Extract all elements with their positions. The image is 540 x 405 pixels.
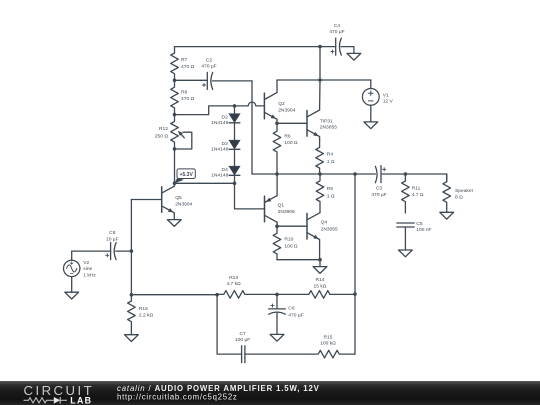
svg-text:2.2 kΩ: 2.2 kΩ <box>139 312 154 318</box>
wire: R10 bottom to Q4 emitter <box>277 259 320 261</box>
resistor R13 <box>217 291 277 299</box>
resistor R15 <box>312 350 355 358</box>
svg-text:D2: D2 <box>222 115 229 121</box>
logo resistor-diode symbol <box>24 397 68 404</box>
wire: bias bottom node down to Q1 base <box>235 183 265 209</box>
wire: R15 right up to R14 node <box>353 294 356 354</box>
wire: R12 to Q5 collector node <box>174 149 176 183</box>
node: R7/R8/C2 junction <box>173 79 177 83</box>
svg-text:C4: C4 <box>334 23 341 29</box>
wire: input node vertical (Q5 base / C8 / R16) <box>130 200 132 295</box>
label R5 value 1 ohm <box>327 186 335 200</box>
label R11 value 4.7 ohm <box>412 186 424 199</box>
wire: C7 to R15 <box>245 353 312 355</box>
node: D4/Q5 collector junction <box>233 182 237 186</box>
svg-text:470 µF: 470 µF <box>329 29 344 35</box>
svg-text:R15: R15 <box>324 335 333 341</box>
node: output rail / R11 junction <box>404 172 408 176</box>
wire: D4 cathode down to bias-spreader bottom node <box>234 175 236 183</box>
svg-text:100 kΩ: 100 kΩ <box>320 341 336 347</box>
diode D3 1N4148 <box>229 140 240 149</box>
svg-text:2N3904: 2N3904 <box>278 107 295 113</box>
svg-text:2N3055: 2N3055 <box>320 125 337 131</box>
svg-text:1N4148: 1N4148 <box>211 120 228 126</box>
resistor R11 <box>402 174 410 213</box>
label Speaker 8 ohm <box>455 188 474 201</box>
node: output rail / feedback junction <box>353 172 357 176</box>
transistor Q4 2N3055 <box>307 213 320 260</box>
svg-text:1 Ω: 1 Ω <box>327 159 335 165</box>
label R4 value 1 ohm <box>327 151 335 165</box>
footer bar <box>0 381 540 405</box>
wire: R13 node down to C7 row <box>217 295 242 354</box>
wire: +12V top rail <box>175 46 336 48</box>
ground: speaker return <box>440 208 454 219</box>
node: R14 / feedback line junction <box>353 292 357 296</box>
node: Q2 emitter / R6 / TIP31 base junction <box>275 122 279 126</box>
R12 wiper arrow <box>178 131 184 138</box>
diode D4 1N4148 <box>229 166 240 175</box>
ground: V1 negative terminal <box>364 122 378 129</box>
svg-text:1 Ω: 1 Ω <box>327 193 335 199</box>
label R16 value 2.2 kohm <box>139 306 154 319</box>
resistor R14 <box>277 291 355 299</box>
wire: R12 wiper short to bottom terminal <box>175 132 192 149</box>
svg-text:C8: C8 <box>109 230 116 236</box>
svg-text:2N3055: 2N3055 <box>321 226 338 232</box>
diode D2 1N4148 <box>229 106 240 123</box>
wire: input row to feedback divider <box>131 294 217 296</box>
wire: junction to C2 <box>175 79 208 81</box>
label R15 value 100 kohm <box>320 335 336 347</box>
voltage source V1 12V <box>362 80 379 122</box>
label R7 value 470 ohm <box>181 57 195 70</box>
label C8 value 10 uF <box>106 230 119 242</box>
label D4 1N4148 <box>211 167 228 178</box>
capacitor C2 <box>207 72 252 89</box>
svg-text:R12: R12 <box>159 126 168 132</box>
svg-text:C7: C7 <box>239 331 246 337</box>
svg-text:catalin / AUDIO POWER AMPLIFIE: catalin / AUDIO POWER AMPLIFIER 1.5W, 12… <box>117 384 320 393</box>
wire: output rail to speaker <box>446 174 448 182</box>
voltage source V2 sine 1kHz <box>63 251 79 292</box>
svg-text:1N4148: 1N4148 <box>211 172 228 178</box>
label D3 1N4148 <box>211 141 228 152</box>
node: D2 anode junction <box>233 104 237 108</box>
label Q2 2N3904 <box>278 101 295 113</box>
label C6 value 470 uF <box>288 305 303 318</box>
node: R16 / feedback row junction <box>130 293 134 297</box>
svg-text:Q5: Q5 <box>175 195 182 201</box>
node: Q5 collector junction dot <box>173 182 177 186</box>
svg-text:8 Ω: 8 Ω <box>455 195 463 201</box>
wire: Q1 collector node to Q4 base <box>277 225 307 227</box>
svg-text:12 V: 12 V <box>383 99 394 105</box>
label V2 sine 1 kHz <box>83 260 96 279</box>
transistor Q3 TIP31 2N3055 <box>307 110 320 141</box>
wire: Q5 collector node across <box>175 182 235 184</box>
label C5 value 100 nF <box>416 221 431 233</box>
svg-text:R14: R14 <box>316 277 325 283</box>
label R12 value 250 ohm <box>155 126 169 140</box>
resistor R10 <box>273 226 281 260</box>
svg-text:R11: R11 <box>412 186 421 192</box>
label C7 value 100 uF <box>235 331 250 343</box>
svg-text:+5.3V: +5.3V <box>180 172 194 178</box>
svg-text:D4: D4 <box>222 167 229 173</box>
resistor R16 <box>128 295 136 328</box>
label Q4 2N3055 <box>321 220 338 233</box>
svg-text:C5: C5 <box>416 221 423 227</box>
svg-text:Q2: Q2 <box>278 101 285 107</box>
wire: output rail <box>252 173 447 175</box>
wire: Q2 emitter node to Q3 base <box>277 122 307 124</box>
label V1 12 V <box>383 92 394 104</box>
label R8 value 470 ohm <box>181 89 195 102</box>
svg-text:R4: R4 <box>327 151 334 157</box>
svg-text:470 Ω: 470 Ω <box>181 64 195 70</box>
wire: +12V collector rail <box>277 79 371 81</box>
resistor R8 <box>171 80 179 114</box>
svg-text:C2: C2 <box>206 57 213 63</box>
node: R13/R14/C6 junction <box>275 293 279 297</box>
voltage flag +5.3V <box>174 169 195 184</box>
svg-text:4.7 kΩ: 4.7 kΩ <box>226 281 241 287</box>
capacitor C3 <box>375 166 381 183</box>
svg-text:R16: R16 <box>139 306 148 312</box>
capacitor C5 <box>397 223 414 250</box>
label C2 polarity + <box>202 83 205 86</box>
transistor Q5 2N3904 <box>162 183 175 219</box>
footer url text <box>117 393 238 402</box>
ground: C6 bottom <box>270 334 284 341</box>
wire: D2 cathode to D3 anode <box>234 123 236 141</box>
label R13 value 4.7 kohm <box>226 275 241 287</box>
resistor R7 <box>171 47 179 81</box>
label C2 value 470 uF <box>201 57 216 69</box>
svg-text:1 kHz: 1 kHz <box>83 273 96 279</box>
label Q1 2N3906 <box>278 203 295 215</box>
svg-text:Speaker: Speaker <box>455 188 474 194</box>
node: R13 left junction <box>215 293 219 297</box>
potentiometer R12 (rheostat) <box>171 115 179 149</box>
logo wordmark LAB <box>70 395 92 405</box>
svg-text:470 µF: 470 µF <box>288 312 303 318</box>
wire: C4 node down to TIP31 collector <box>319 47 321 110</box>
svg-text:R10: R10 <box>284 236 293 242</box>
node: top rail / C4 junction <box>318 45 322 49</box>
label R6 value 100 ohm <box>284 134 298 147</box>
node: output rail / R4 / R5 junction <box>318 172 322 176</box>
CircuitLab logo wordmark CIRCUIT <box>24 383 95 398</box>
ground: Q5 emitter <box>167 220 181 227</box>
svg-text:100 Ω: 100 Ω <box>284 140 298 146</box>
svg-text:TIP31: TIP31 <box>320 118 333 124</box>
ground: R16 bottom <box>125 328 139 342</box>
svg-text:C6: C6 <box>288 305 295 311</box>
label C3 polarity + <box>383 168 386 171</box>
svg-text:R13: R13 <box>229 275 238 281</box>
svg-text:1N4148: 1N4148 <box>211 146 228 152</box>
svg-text:R7: R7 <box>181 57 188 63</box>
label C6 polarity + <box>271 304 274 307</box>
svg-text:15 kΩ: 15 kΩ <box>314 284 327 290</box>
svg-text:2N3904: 2N3904 <box>175 201 192 207</box>
label C3 value 470 uF <box>371 186 386 198</box>
svg-text:R5: R5 <box>327 186 334 192</box>
node: C8 junction <box>130 249 134 253</box>
svg-text:C3: C3 <box>376 186 383 192</box>
resistor R4 <box>316 141 324 174</box>
label R14 value 15 kohm <box>314 277 327 290</box>
svg-text:D3: D3 <box>222 141 229 147</box>
node: Q4 emitter ground junction <box>318 258 322 262</box>
svg-text:Q4: Q4 <box>321 220 328 226</box>
svg-text:sine: sine <box>83 266 92 272</box>
node: R12 bottom junction <box>173 147 177 151</box>
svg-text:LAB: LAB <box>70 395 92 405</box>
resistor R6 <box>273 123 281 174</box>
svg-text:470 Ω: 470 Ω <box>181 96 195 102</box>
svg-text:Q1: Q1 <box>278 203 285 209</box>
node: collector rail / C4 / TIP31 junction <box>318 78 322 82</box>
label R10 value 100 ohm <box>284 236 298 249</box>
ground: C4 negative terminal <box>347 53 361 60</box>
speaker (8 ohm resistor symbol) <box>443 174 451 208</box>
resistor R5 <box>316 174 324 213</box>
svg-text:R8: R8 <box>181 89 188 95</box>
ground: V2 negative terminal <box>65 292 79 299</box>
svg-text:http://circuitlab.com/c5q252z: http://circuitlab.com/c5q252z <box>117 393 238 402</box>
svg-text:R6: R6 <box>284 134 291 140</box>
svg-text:470 µF: 470 µF <box>371 192 386 198</box>
node: R8/R12 junction <box>173 113 177 117</box>
svg-text:2N3906: 2N3906 <box>278 209 295 215</box>
label TIP31 2N3055 <box>320 118 337 130</box>
node: output rail / R6 / Q1 emitter junction <box>275 172 279 176</box>
svg-text:10 µF: 10 µF <box>106 236 119 242</box>
svg-text:V1: V1 <box>383 92 389 98</box>
ground: output stage emitter <box>313 260 327 274</box>
label D2 1N4148 <box>211 115 228 126</box>
svg-text:100 Ω: 100 Ω <box>284 243 298 249</box>
label C8 polarity + <box>106 254 109 257</box>
wire: D3 cathode to D4 anode <box>234 149 236 166</box>
svg-text:100 µF: 100 µF <box>235 337 250 343</box>
footer title: author and circuit name <box>117 384 320 393</box>
svg-text:4.7 Ω: 4.7 Ω <box>412 192 424 198</box>
label Q5 2N3904 <box>175 195 192 207</box>
wire: C2 to output rail (bootstrap) <box>251 81 253 174</box>
capacitor C7 <box>242 346 245 363</box>
svg-text:250 Ω: 250 Ω <box>155 134 169 140</box>
svg-text:V2: V2 <box>83 260 89 266</box>
capacitor C8 <box>72 243 132 260</box>
capacitor C6 <box>269 294 286 334</box>
svg-text:470 µF: 470 µF <box>201 64 216 70</box>
wire: feedback takeoff down right side <box>354 174 356 294</box>
transistor Q2 2N3904 <box>264 80 277 123</box>
label C4 value 470 uF <box>329 23 344 35</box>
ground: C5 bottom <box>399 250 413 257</box>
capacitor C4 <box>336 38 354 55</box>
svg-text:100 nF: 100 nF <box>416 227 431 233</box>
wire: bias node to Q2 base with hop over bootstrap wire <box>175 102 265 114</box>
label C4 polarity + <box>331 50 334 53</box>
node: Q1 collector / R10 / Q4 base junction <box>275 224 279 228</box>
wire: Q5 base lead <box>131 199 161 201</box>
transistor Q1 2N3906 <box>265 174 278 226</box>
